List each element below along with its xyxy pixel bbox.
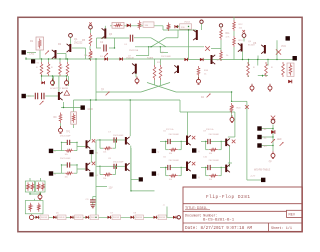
svg-text:2SC1000F: 2SC1000F	[113, 135, 124, 137]
svg-text:+12V: +12V	[250, 176, 256, 178]
svg-text:R17 10k: R17 10k	[166, 129, 173, 131]
svg-text:1N4148: 1N4148	[126, 58, 134, 60]
svg-text:10k: 10k	[209, 179, 212, 181]
svg-text:10k: 10k	[65, 154, 68, 156]
svg-text:Q: Q	[158, 174, 160, 176]
svg-text:1N4148: 1N4148	[113, 217, 119, 219]
svg-text:10k: 10k	[65, 177, 68, 179]
svg-text:CN1: CN1	[29, 52, 35, 56]
svg-text:1N414: 1N414	[184, 22, 191, 24]
svg-text:TP: TP	[101, 89, 104, 92]
svg-text:10k: 10k	[103, 178, 106, 180]
svg-text:2N2222: 2N2222	[74, 42, 83, 45]
svg-text:1N4148: 1N4148	[41, 217, 47, 219]
svg-text:2N2222A: 2N2222A	[129, 49, 139, 52]
svg-text:SCHOTTKY BAT85: SCHOTTKY BAT85	[50, 87, 69, 90]
svg-text:2SC1000F: 2SC1000F	[60, 136, 71, 138]
svg-text:Q1: Q1	[74, 37, 78, 41]
svg-text:-TP: -TP	[268, 162, 272, 164]
svg-text:1N4148: 1N4148	[58, 217, 64, 219]
svg-text:1N4148: 1N4148	[159, 217, 165, 219]
svg-text:R18 10k: R18 10k	[206, 129, 213, 131]
svg-text:2SC1000F: 2SC1000F	[113, 161, 124, 163]
svg-text:VCC: VCC	[281, 45, 286, 48]
svg-text:2SC1000F: 2SC1000F	[169, 160, 180, 162]
svg-text:REV: REV	[289, 213, 296, 217]
svg-text:10k: 10k	[169, 153, 172, 155]
svg-text:Q: Q	[158, 151, 160, 153]
svg-text:Q: Q	[198, 151, 200, 153]
svg-text:10k: 10k	[209, 153, 212, 155]
svg-text:Sheet: 1/1: Sheet: 1/1	[271, 226, 292, 231]
svg-text:12V: 12V	[109, 187, 114, 189]
svg-text:1N4148: 1N4148	[75, 217, 81, 219]
svg-text:TP1: TP1	[66, 132, 71, 134]
svg-text:IN: IN	[28, 95, 31, 98]
svg-text:2SC1000F: 2SC1000F	[169, 134, 180, 136]
svg-text:10k: 10k	[169, 179, 172, 181]
svg-text:Date: 8/27/2017 9:07:18 AM: Date: 8/27/2017 9:07:18 AM	[185, 226, 252, 231]
svg-text:2SC1000F: 2SC1000F	[209, 134, 220, 136]
svg-text:Flip-Flop D281: Flip-Flop D281	[206, 195, 251, 200]
svg-text:2SC1000F: 2SC1000F	[161, 56, 172, 58]
svg-text:1N4148: 1N4148	[136, 217, 142, 219]
svg-text:WS-RB-TABLE: WS-RB-TABLE	[254, 169, 271, 172]
svg-text:10k: 10k	[103, 152, 106, 154]
svg-text:2SC1000F: 2SC1000F	[60, 158, 71, 160]
svg-text:TITLE: D281L: TITLE: D281L	[185, 206, 207, 210]
svg-text:Q: Q	[198, 177, 200, 179]
svg-text:LED: LED	[277, 139, 282, 141]
svg-text:B-CS-B281-B-1: B-CS-B281-B-1	[203, 219, 235, 223]
svg-text:2SC1000F: 2SC1000F	[209, 160, 220, 162]
